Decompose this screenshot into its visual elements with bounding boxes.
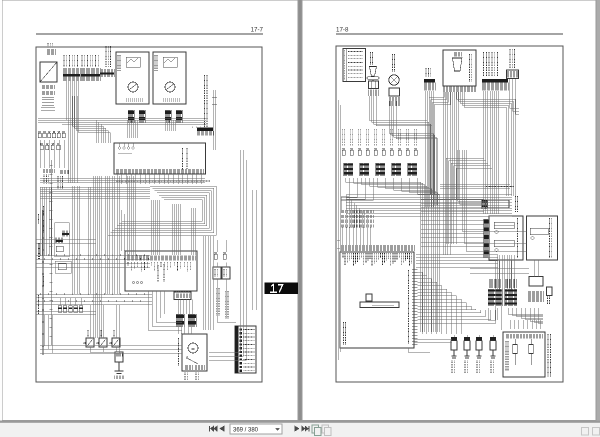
AC-5 bottom pin circles: [133, 282, 135, 284]
schematic frame left page: [36, 47, 262, 382]
motor box bottom combs: [185, 365, 192, 370]
row tick texture B: [40, 293, 148, 302]
blower motor circle: [188, 343, 198, 353]
motor feed drops: [44, 315, 52, 353]
junction dots right page: [352, 120, 515, 314]
diode D3: [112, 338, 120, 347]
long center bundle to rows: [105, 176, 119, 294]
middle vertical bundle to combs: [498, 255, 515, 289]
connector comb CN2: [81, 68, 100, 81]
lever wires right-turn to drop: [370, 96, 432, 195]
compressor label columns: [217, 288, 219, 316]
servo feed: [458, 150, 487, 204]
connector above transformer T1: [47, 49, 55, 55]
small comb CN4: [60, 170, 70, 174]
actuator box 2: [527, 216, 558, 260]
bottom small box: [529, 277, 543, 287]
pages bottom shadow: [0, 421, 600, 423]
motor symbol M1: [128, 82, 138, 92]
AC2 fan pin labels: [116, 180, 210, 182]
svg-text:17-8: 17-8: [336, 27, 349, 34]
wiring color legend box: [343, 49, 366, 82]
AC-5 inverter box: [125, 251, 197, 291]
connector comb CN1: [63, 68, 80, 81]
fuse F22: [224, 252, 226, 254]
connector comb CN12: [482, 79, 508, 83]
bottom connector comb B: [505, 289, 517, 306]
links below actuator boxes: [470, 260, 538, 290]
bottom connector comb A pins: [489, 279, 502, 288]
fuse row wires down: [40, 140, 64, 168]
blower controller box: [340, 252, 414, 348]
fan to bottom combs: [488, 290, 501, 330]
controller top comb: [341, 245, 414, 251]
dial connector: [389, 88, 400, 96]
ground connector left: [43, 169, 54, 173]
fuse row drop staircase: [346, 178, 440, 332]
harness bus second: [40, 179, 205, 183]
condenser fan unit box M2: [153, 52, 186, 104]
main horizontal bus: [346, 195, 512, 217]
status icon right 2: [593, 428, 600, 436]
header rule right page: [336, 33, 563, 35]
fuse row FB2: [41, 143, 43, 145]
DUAL AC2 bottom pin comb: [116, 169, 203, 174]
switch in motor box: [187, 358, 198, 364]
AC-5 top pin comb: [127, 256, 195, 261]
left wire with dots: [42, 210, 44, 355]
header rule left page: [36, 33, 263, 35]
DUAL AC2 top pins: [118, 147, 120, 149]
long center bundle to diodes: [93, 176, 102, 338]
diode D2: [99, 338, 107, 347]
last page button: [302, 426, 309, 431]
bus turn down to AC2 connector: [192, 123, 206, 125]
notes text column: [548, 334, 551, 377]
wire pair to DUAL AC2 connector: [214, 90, 216, 150]
note box bottom right: [503, 332, 545, 377]
motor symbol M2: [165, 82, 175, 92]
toolbar background: [0, 423, 600, 437]
resistor R1 in note box: [514, 339, 516, 365]
left page sheet: [2, 0, 298, 421]
left margin strip: [0, 0, 2, 421]
connector stacks under M1: [128, 110, 134, 123]
relay connector: [507, 70, 519, 79]
fuse block under transformer: [42, 85, 54, 89]
page layout icon 2: [322, 425, 329, 433]
diode D1: [86, 338, 94, 347]
blower motor box: [182, 334, 207, 371]
bus above fuse rows: [38, 118, 66, 122]
relay A in harness box: [62, 231, 69, 237]
junction dots left page: [48, 118, 213, 300]
AC-5 bottom connector box: [174, 292, 191, 300]
page number box: [230, 424, 282, 434]
left drop bundle: [68, 96, 77, 183]
motor box labels below: [185, 373, 187, 381]
label cluster near CN3: [106, 46, 110, 67]
connector stacks under AC-5: [176, 314, 184, 327]
top bus junction dots: [470, 185, 504, 187]
fuse F21: [215, 252, 217, 254]
connector color legend table: [235, 326, 256, 373]
DUAL AC2 top right connector: [197, 128, 213, 131]
right margin strip: [597, 0, 600, 421]
nested corner maze: [347, 195, 368, 229]
bottom connector to stacks: [178, 300, 192, 315]
connector stacks under M2: [165, 110, 171, 123]
harness outline box lower: [55, 261, 71, 273]
controller right pin column: [412, 269, 418, 344]
drop to lower rows: [88, 187, 90, 294]
top bus right: [440, 185, 510, 189]
sensor comb wires down: [444, 92, 459, 199]
first page button: [208, 426, 210, 431]
loop right-arm descenders: [204, 236, 214, 330]
right long verticals: [240, 150, 256, 330]
relay B in harness box: [56, 238, 63, 244]
nested routing loops: [108, 186, 216, 235]
CN12 corner block to controller: [446, 91, 492, 244]
stacked pin rows above controller: [341, 210, 373, 213]
controller fan out: [418, 272, 496, 334]
note box feed wires: [508, 308, 543, 324]
legend feed wire: [217, 300, 236, 322]
M1 wires to AC2: [127, 120, 138, 138]
thermistor TH1: [115, 352, 123, 362]
fuse row with labels: [343, 129, 345, 146]
controller vertical label: [344, 322, 346, 345]
wire rows lower-left A: [36, 240, 96, 244]
fuse F13: [58, 264, 66, 270]
CN12 label columns: [484, 52, 498, 77]
svg-text:17-7: 17-7: [251, 27, 264, 34]
row drops to diodes: [90, 305, 116, 338]
connector comb CN3: [100, 69, 114, 77]
bottom connector comb A: [488, 289, 502, 306]
AC-5 hanging pin labels: [128, 262, 191, 272]
tick wire with terminals: [49, 160, 52, 345]
fuse row connector stacks: [344, 163, 353, 176]
lever connector: [369, 81, 379, 89]
DUAL AC2 inverter box: [114, 143, 206, 174]
chapter tab 17: [265, 283, 299, 295]
bottom connector comb C: [528, 291, 543, 302]
transformer T1 box: [40, 62, 57, 82]
bottom connector comb B pins: [505, 279, 516, 288]
fuse row FB1: [39, 131, 41, 133]
wire label column right of M2: [205, 75, 207, 127]
motor feed wires: [40, 346, 182, 354]
controller top fan right: [416, 254, 498, 267]
next page button: [295, 426, 299, 431]
servo motor top: [487, 200, 509, 208]
actuator stack column: [484, 219, 490, 258]
bus to frame left: [40, 187, 150, 199]
AC-5 bottom left down-wires: [148, 291, 182, 330]
CN11 wires down: [425, 91, 434, 207]
thermistor feed wires: [454, 335, 493, 337]
ambient sensor box: [443, 50, 476, 86]
AC-5 top-left wire pair: [122, 210, 124, 251]
sensor wires lower tails: [444, 199, 451, 255]
controller to left wires: [337, 240, 340, 248]
svg-text:369 / 380: 369 / 380: [233, 427, 259, 433]
tiny diode bottom right: [547, 287, 553, 296]
CN12 wires drop: [484, 91, 499, 214]
harness outline box upper: [55, 223, 70, 257]
row drops to fuse pairs: [60, 298, 81, 305]
sensor comb staircase left: [429, 92, 450, 194]
left edge drop bus: [40, 187, 52, 256]
resistor R2 in note box: [530, 339, 532, 365]
pin rows to controller wires: [343, 227, 371, 245]
bus into actuator boxes: [421, 199, 484, 246]
diode output wires: [90, 347, 119, 352]
status icon right 1: [582, 428, 589, 436]
harness bus top: [62, 118, 206, 124]
controller inner bar: [360, 302, 399, 308]
AC-5 to bottom connector wires: [176, 291, 188, 292]
comb CN1 CN2 drop to AC2: [66, 81, 110, 143]
bus into actuator box 2: [462, 150, 527, 251]
fuse pair row: [58, 306, 62, 313]
dial wires right-turn to drop: [390, 101, 438, 205]
junction dots rows A: [44, 255, 128, 257]
fuse drop wires right: [217, 240, 226, 300]
page layout icon 1: [312, 425, 319, 433]
stacks to motor wires: [178, 327, 192, 334]
row tick texture A: [40, 254, 148, 260]
motor box right wires: [209, 320, 246, 360]
relay label column: [510, 49, 514, 69]
previous page button: [220, 426, 224, 431]
controller hanging pin labels: [343, 253, 412, 266]
M2 wires down: [165, 120, 176, 131]
AC2 bottom fan: [117, 174, 202, 184]
actuator box 1: [489, 216, 523, 260]
wire rows lower-left B: [36, 294, 152, 305]
mode control lever: [371, 52, 373, 65]
fuse F11: [56, 246, 63, 252]
connector comb CN11: [424, 79, 435, 83]
controller bottom-right exit wires: [408, 339, 452, 352]
relay wires: [510, 79, 520, 114]
wire rows lower-left C: [36, 311, 96, 315]
thermistor row: [451, 337, 457, 341]
right page sheet: [302, 0, 596, 421]
center drop groups to AC-5: [127, 176, 136, 255]
left edge vertical wires: [338, 100, 340, 360]
blower dial switch: [393, 54, 395, 72]
sensor wires right-turn block: [456, 92, 515, 196]
condenser fan unit box M1: [116, 52, 149, 104]
thermistor wire: [118, 305, 120, 353]
mid drop bundle: [72, 186, 80, 294]
junction row under fuse block: [41, 107, 55, 110]
tick wire labels: [43, 206, 45, 216]
schematic frame right page: [336, 46, 563, 382]
gutter shadow between pages: [299, 0, 302, 421]
sensor box connector comb: [444, 87, 476, 93]
fuse second wires: [341, 178, 373, 210]
